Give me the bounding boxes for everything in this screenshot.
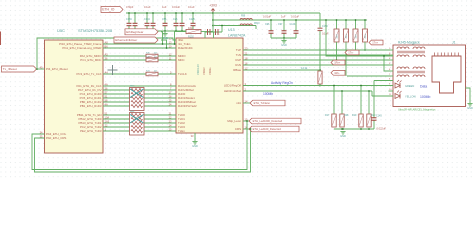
- junctions on 3V3 rail: [270, 19, 297, 21]
- svg-text:RBias: RBias: [233, 68, 241, 72]
- wire /Reset up and over to U13: [37, 38, 176, 69]
- ferrite bead FB9: [240, 16, 252, 21]
- cursor crosshair: [108, 65, 118, 75]
- svg-text:VDDio: VDDio: [208, 67, 212, 75]
- wire 3V3 rail upper: [213, 19, 367, 21]
- junction LED detect rows: [246, 120, 251, 130]
- ground of capacitor bank: [162, 31, 168, 40]
- wire LED2 speed net: [243, 91, 393, 96]
- svg-text:GND: GND: [467, 106, 473, 110]
- IC U13 LAN8742A reference text: [228, 28, 246, 38]
- junction 10k tap: [174, 43, 176, 45]
- wire termination drops: [337, 42, 366, 76]
- wires U5C to U13: [103, 44, 176, 131]
- svg-text:GREEN: GREEN: [405, 84, 414, 88]
- junction +3V3 taps: [212, 12, 214, 26]
- connector J1 body: [393, 45, 466, 107]
- LED yellow 100Mb: [395, 91, 430, 100]
- IC U13 left-side pin names and numbers: [169, 36, 197, 133]
- junction /Reset: [36, 68, 38, 70]
- svg-text:TxN: TxN: [236, 53, 241, 57]
- svg-text:ETH_Led1000_Detected: ETH_Led1000_Detected: [253, 119, 283, 123]
- ground below U13 pad: [192, 142, 198, 149]
- svg-text:RN3: RN3: [130, 86, 135, 88]
- svg-text:YELLOW: YELLOW: [405, 95, 416, 99]
- svg-text:Mdp_Leon: Mdp_Leon: [227, 119, 241, 123]
- LED resistor reference texts: [325, 114, 376, 117]
- capacitor C145: [372, 114, 387, 131]
- svg-text:RxD3/PHYad2: RxD3/PHYad2: [178, 104, 197, 108]
- capacitors at PHY supply pins: [208, 29, 219, 35]
- svg-text:1Tx+: 1Tx+: [372, 41, 378, 45]
- svg-text:GND: GND: [192, 144, 198, 148]
- svg-text:0.01uF: 0.01uF: [263, 15, 271, 19]
- power symbol +3V3: [209, 4, 217, 14]
- svg-text:C140: C140: [290, 23, 296, 26]
- svg-text:FB10: FB10: [254, 23, 260, 25]
- svg-text:U13: U13: [228, 28, 235, 32]
- wire ETH_IO rail: [126, 12, 213, 14]
- svg-text:100Mb: 100Mb: [420, 95, 430, 99]
- wire ETH_CRS bottom run: [35, 129, 251, 172]
- IC U5C right-side pin names and numbers: [59, 40, 110, 133]
- ground of supply caps: [281, 38, 287, 47]
- svg-text:R102: R102: [188, 36, 194, 39]
- svg-text:LED2/nIntSel: LED2/nIntSel: [224, 89, 241, 93]
- global label ETH_Led1000_Detected: [243, 118, 301, 124]
- series resistors R75 R76 R77: [146, 54, 158, 76]
- svg-text:12.1k: 12.1k: [301, 66, 308, 70]
- IC U5C STM32H753BI reference text: [57, 28, 113, 33]
- wire capacitor bank ground bus: [129, 30, 193, 32]
- capacitors C96 C97 C140: [269, 20, 299, 38]
- clipped label at left edge: [0, 32, 2, 46]
- wire /Reset from label to U5C pin: [37, 68, 45, 70]
- svg-text:GND: GND: [281, 43, 287, 47]
- svg-text:C104: C104: [144, 18, 150, 21]
- wire PHY supply drop: [221, 25, 223, 32]
- svg-text:+3V3: +3V3: [209, 4, 217, 8]
- wire 10k right to +3V3: [201, 31, 213, 33]
- wire PHY supply feed: [205, 31, 222, 33]
- IC U5C body: [45, 40, 104, 153]
- svg-text:PC1_ETH_MDC: PC1_ETH_MDC: [80, 58, 101, 62]
- svg-text:10k: 10k: [188, 26, 193, 30]
- svg-text:C159: C159: [126, 18, 132, 21]
- global label EthRegClear: [125, 29, 158, 35]
- junction RBIAS row: [319, 69, 321, 71]
- svg-text:R19: R19: [352, 114, 357, 117]
- svg-text:1Tx-: 1Tx-: [348, 51, 353, 55]
- junction termination taps: [336, 49, 366, 61]
- wire C150 to RBIAS resistor: [319, 31, 321, 71]
- svg-text:U5C: U5C: [57, 28, 65, 33]
- wire 10k left to /Reset wire: [175, 32, 187, 45]
- global label ETH_IO: [101, 7, 123, 13]
- svg-text:RJ45-Magjack: RJ45-Magjack: [398, 41, 420, 45]
- wire LED1 activity net: [243, 85, 393, 87]
- RJ45 jack drawing inside J1: [432, 53, 461, 94]
- svg-text:R28: R28: [344, 114, 349, 117]
- svg-text:C125: C125: [189, 18, 195, 21]
- termination resistors R98-R101 49.9: [334, 19, 368, 42]
- junction EthernetClkUser: [166, 47, 168, 49]
- wire magjack center tap TD: [325, 19, 390, 56]
- wire LED feed row: [374, 81, 393, 115]
- hierarchical label EthernetClkUser: [114, 37, 158, 43]
- svg-text:PA0_ETH_CRS: PA0_ETH_CRS: [46, 136, 66, 140]
- svg-text:PC3_ETH_Tx_CLK: PC3_ETH_Tx_CLK: [76, 72, 101, 76]
- svg-text:0.01uF: 0.01uF: [291, 15, 299, 19]
- svg-text:0.1uF: 0.1uF: [144, 5, 151, 9]
- global label 1Tx-: [345, 50, 359, 55]
- svg-text:C96: C96: [265, 23, 270, 26]
- background grid: [0, 0, 474, 180]
- IC U5C left-side pin names and numbers: [40, 65, 68, 140]
- note Activity RegOn: [271, 81, 293, 85]
- svg-text:TxP: TxP: [236, 48, 241, 52]
- svg-text:nInt: nInt: [236, 101, 241, 105]
- svg-text:C97: C97: [278, 23, 283, 26]
- junction LED bus: [342, 128, 344, 130]
- svg-text:100Mb: 100Mb: [263, 92, 273, 96]
- wire ETH_IO rail extension: [213, 12, 320, 14]
- wire supply caps ground bus: [271, 37, 296, 39]
- svg-text:TxCLK: TxCLK: [178, 72, 187, 76]
- svg-text:J1: J1: [452, 41, 456, 45]
- svg-text:0.1uF: 0.1uF: [322, 32, 329, 36]
- global label 1Rx+: [331, 60, 345, 65]
- LED green Data: [395, 80, 427, 89]
- svg-text:RxEr/RxD4: RxEr/RxD4: [178, 46, 193, 50]
- svg-text:ETH_TxNano: ETH_TxNano: [254, 101, 271, 105]
- series resistor reference texts: [130, 53, 158, 113]
- svg-text:ETH_Led100_Detected: ETH_Led100_Detected: [253, 127, 282, 131]
- junctions on ETH_IO rail: [128, 12, 194, 14]
- wire J1 shield to ground: [466, 88, 471, 103]
- svg-text:0.01uF: 0.01uF: [172, 5, 180, 9]
- IC U13 bottom pad pin 33 wire: [191, 133, 195, 141]
- wire 3V3 rail lower: [213, 26, 256, 30]
- resistor network RN4: [130, 113, 145, 136]
- svg-text:GND: GND: [340, 134, 346, 138]
- resistor network RN3: [130, 88, 145, 111]
- svg-text:RxN: RxN: [235, 63, 241, 67]
- wire EthRegClear to row: [161, 32, 163, 44]
- capacitor C96 C97 C140 texts: [263, 15, 299, 27]
- svg-text:C56: C56: [162, 18, 167, 21]
- wire LED resistor ground bus: [334, 128, 374, 130]
- svg-text:R17: R17: [325, 114, 330, 117]
- connector J1 left pin stubs: [389, 48, 394, 96]
- wire RBIAS resistor bottom: [319, 84, 321, 86]
- svg-text:PB1_ETH_RxD3: PB1_ETH_RxD3: [80, 104, 102, 108]
- svg-text:GND: GND: [162, 36, 168, 40]
- LED resistors R17 R28 R19 R20: [332, 85, 371, 127]
- svg-text:0.1uF: 0.1uF: [188, 5, 195, 9]
- junction EthRegClear: [162, 43, 164, 45]
- svg-text:470pF: 470pF: [126, 5, 134, 9]
- svg-text:PI4_ETH_/Reset: PI4_ETH_/Reset: [46, 67, 68, 71]
- wire magjack center tap RD: [383, 55, 390, 71]
- svg-text:C145: C145: [376, 115, 382, 118]
- wire EthernetClkUser to row: [161, 40, 167, 48]
- svg-text:EthRegClear: EthRegClear: [126, 30, 143, 34]
- svg-text:VDD1.2V: VDD1.2V: [196, 64, 200, 75]
- global label ETH_TxNano: [243, 100, 285, 106]
- IC U13 top pin names (vertical): [196, 64, 212, 75]
- note 100Mb: [263, 92, 273, 96]
- global label ETH_Led100_Detected: [243, 126, 299, 132]
- svg-text:1Rx-: 1Rx-: [334, 71, 340, 75]
- ground of LED resistors: [340, 132, 346, 139]
- svg-text:MDC: MDC: [178, 58, 185, 62]
- capacitor bank value texts: [126, 5, 195, 9]
- svg-text:Activity RegOn: Activity RegOn: [271, 81, 293, 85]
- svg-text:STM32H753BI-208: STM32H753BI-208: [78, 28, 113, 33]
- svg-text:Data: Data: [420, 85, 427, 89]
- connector J1 footprint text: [398, 108, 436, 112]
- svg-text:C26: C26: [173, 18, 178, 21]
- svg-text:PI11_ETH_FrameLong_RXER: PI11_ETH_FrameLong_RXER: [62, 46, 101, 50]
- svg-text:ETH_IO: ETH_IO: [102, 8, 115, 12]
- capacitor C150: [318, 13, 330, 36]
- svg-text:1uF: 1uF: [281, 15, 286, 19]
- global label 1Rx-: [331, 70, 345, 75]
- transformer windings inside J1: [397, 47, 425, 77]
- svg-text:PE2_ETH_TxD3: PE2_ETH_TxD3: [80, 129, 102, 133]
- svg-text:RN4: RN4: [130, 111, 135, 113]
- svg-text:LAN8742A: LAN8742A: [228, 34, 246, 38]
- wire +3V3 vertical: [212, 13, 214, 32]
- svg-text:EthernetClkUser: EthernetClkUser: [115, 38, 137, 42]
- svg-text:1Rx+: 1Rx+: [334, 61, 341, 65]
- ground of J1 shield: [467, 104, 473, 111]
- svg-text:LED1/RegOff: LED1/RegOff: [224, 84, 241, 88]
- wires PHY TxP TxN RxP RxN to magjack: [243, 50, 390, 76]
- svg-text:CRS: CRS: [235, 127, 241, 131]
- connector J1 reference text: [398, 41, 456, 45]
- hierarchical label Tx_/Reset: [2, 66, 37, 72]
- global label 1Tx+: [369, 40, 383, 45]
- capacitor bank reference texts: [126, 18, 195, 21]
- IC U13 right-side pin names and numbers: [224, 46, 248, 131]
- svg-text:0.022uF: 0.022uF: [377, 127, 387, 131]
- resistor R102 10k: [186, 26, 201, 39]
- svg-text:RxP: RxP: [236, 58, 242, 62]
- ferrite bead FB10: [240, 23, 260, 26]
- resistor R97 12.1k: [301, 66, 322, 84]
- svg-text:TxEn: TxEn: [178, 129, 185, 133]
- svg-text:C150: C150: [322, 25, 328, 28]
- IC U13 body: [176, 38, 243, 133]
- svg-text:1uF: 1uF: [162, 5, 167, 9]
- svg-text:UltraJR-HR,AR(CE)_Magnetics: UltraJR-HR,AR(CE)_Magnetics: [398, 108, 436, 112]
- svg-text:Tx_/Reset: Tx_/Reset: [3, 67, 17, 71]
- svg-text:FB9: FB9: [241, 16, 246, 18]
- wire PHY supply pins: [205, 32, 214, 38]
- wire ETH_COL bottom run: [32, 121, 247, 170]
- capacitor bank C104-C159: [127, 13, 196, 31]
- svg-text:VDDcr: VDDcr: [202, 67, 206, 75]
